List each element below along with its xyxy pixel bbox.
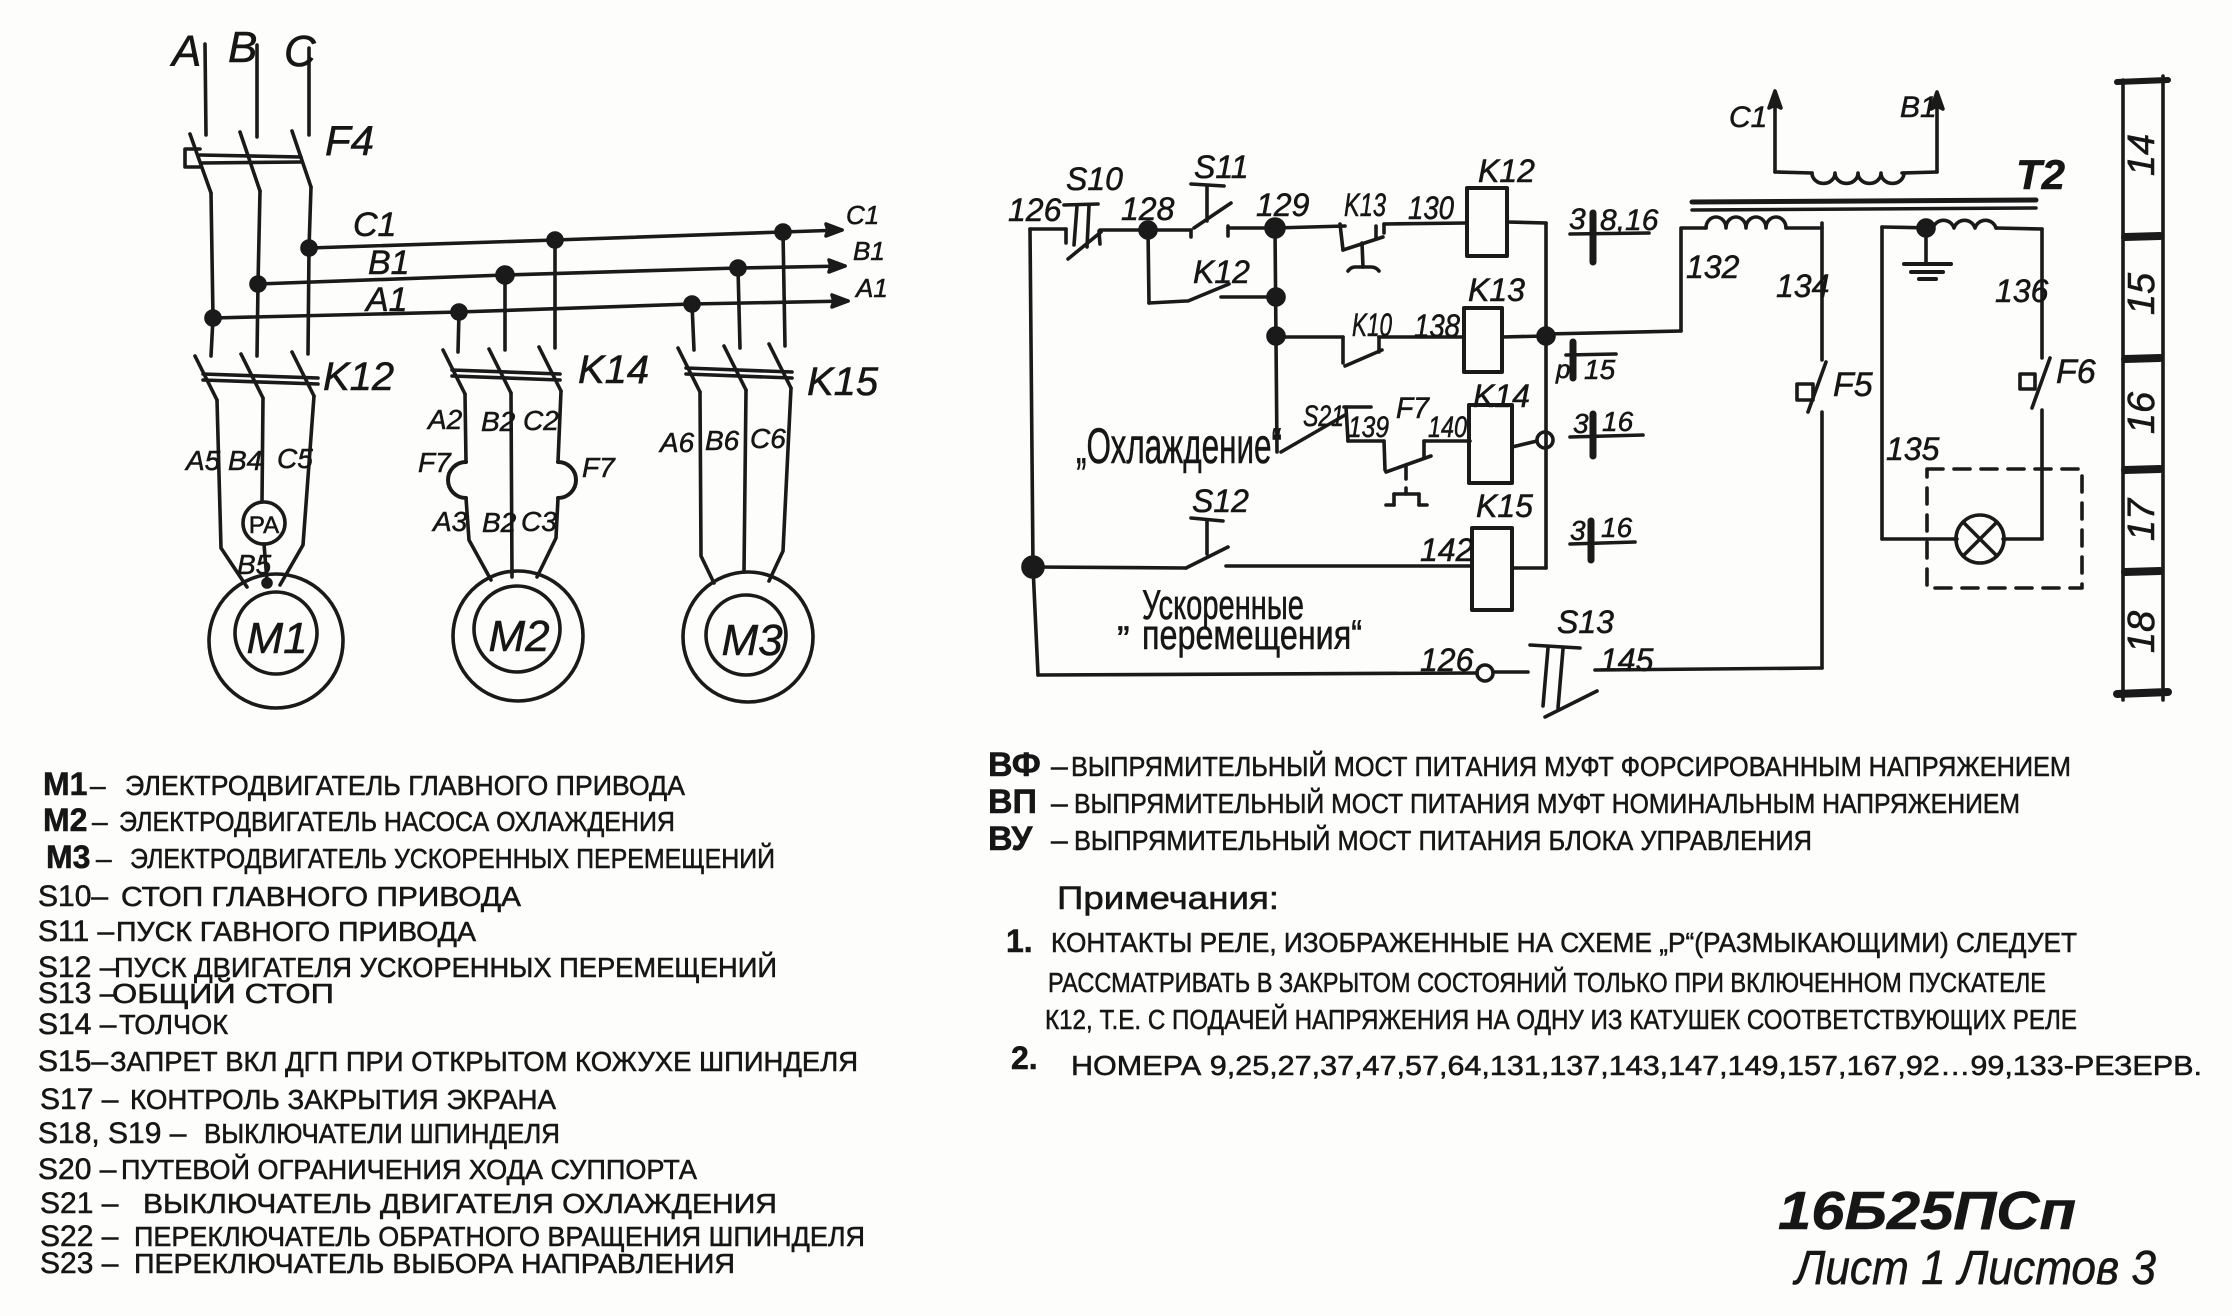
svg-text:128: 128 bbox=[1121, 191, 1175, 227]
svg-text:B: B bbox=[228, 23, 257, 72]
svg-text:ОБЩИЙ СТОП: ОБЩИЙ СТОП bbox=[112, 978, 334, 1009]
svg-text:S10: S10 bbox=[1066, 161, 1123, 197]
svg-text:КОНТРОЛЬ ЗАКРЫТИЯ ЭКРАНА: КОНТРОЛЬ ЗАКРЫТИЯ ЭКРАНА bbox=[130, 1084, 556, 1115]
svg-text:C1: C1 bbox=[353, 206, 396, 244]
svg-text:142: 142 bbox=[1420, 532, 1474, 568]
svg-text:ЭЛЕКТРОДВИГАТЕЛЬ ГЛАВНОГО ПР: ЭЛЕКТРОДВИГАТЕЛЬ ГЛАВНОГО ПРИВОДА bbox=[125, 770, 685, 801]
svg-text:–: – bbox=[1051, 787, 1068, 820]
svg-text:F7: F7 bbox=[582, 452, 616, 483]
svg-text:16Б25ПСп: 16Б25ПСп bbox=[1778, 1181, 2076, 1241]
svg-text:–: – bbox=[92, 806, 108, 837]
svg-text:K12: K12 bbox=[1193, 254, 1250, 290]
svg-text:C6: C6 bbox=[750, 423, 786, 454]
svg-text:ЭЛЕКТРОДВИГАТЕЛЬ УСКОРЕННЫХ: ЭЛЕКТРОДВИГАТЕЛЬ УСКОРЕННЫХ ПЕРЕМЕЩЕНИЙ bbox=[130, 843, 775, 874]
svg-text:B1: B1 bbox=[853, 236, 885, 266]
svg-text:ВЫКЛЮЧАТЕЛИ ШПИНДЕЛЯ: ВЫКЛЮЧАТЕЛИ ШПИНДЕЛЯ bbox=[204, 1118, 560, 1149]
svg-text:НОМЕРА 9,25,27,37,47,57,64,13: НОМЕРА 9,25,27,37,47,57,64,131,137,143,1… bbox=[1071, 1050, 2202, 1081]
svg-text:K14: K14 bbox=[1473, 378, 1530, 414]
svg-text:15: 15 bbox=[1584, 354, 1616, 385]
svg-text:126: 126 bbox=[1420, 642, 1474, 678]
svg-text:F5: F5 bbox=[1833, 366, 1873, 404]
svg-text:C1: C1 bbox=[1729, 101, 1767, 134]
svg-text:16: 16 bbox=[1601, 512, 1633, 543]
svg-text:S23 –: S23 – bbox=[40, 1247, 119, 1280]
svg-text:M3: M3 bbox=[46, 839, 90, 875]
svg-text:ВФ: ВФ bbox=[988, 746, 1041, 784]
svg-text:S11 –: S11 – bbox=[38, 915, 114, 948]
svg-text:C: C bbox=[284, 27, 317, 76]
svg-text:136: 136 bbox=[1995, 273, 2049, 309]
svg-text:PA: PA bbox=[249, 512, 279, 539]
svg-text:134: 134 bbox=[1776, 268, 1829, 304]
svg-text:S15–: S15– bbox=[38, 1045, 108, 1078]
svg-text:S10–: S10– bbox=[38, 880, 108, 913]
svg-text:S12: S12 bbox=[1192, 483, 1249, 519]
svg-text:K15: K15 bbox=[1476, 488, 1533, 524]
svg-text:K12: K12 bbox=[323, 355, 394, 399]
svg-text:C5: C5 bbox=[277, 443, 313, 474]
svg-text:B2: B2 bbox=[481, 406, 516, 437]
svg-text:A3: A3 bbox=[431, 506, 468, 537]
svg-text:ЭЛЕКТРОДВИГАТЕЛЬ НАСОСА ОХЛА: ЭЛЕКТРОДВИГАТЕЛЬ НАСОСА ОХЛАЖДЕНИЯ bbox=[119, 806, 675, 837]
svg-text:S13: S13 bbox=[1557, 604, 1614, 640]
svg-text:F7: F7 bbox=[1396, 392, 1430, 425]
svg-text:S13 –: S13 – bbox=[38, 977, 117, 1010]
svg-text:p: p bbox=[1555, 354, 1570, 384]
svg-text:–: – bbox=[90, 770, 106, 801]
svg-text:–: – bbox=[1051, 750, 1068, 783]
svg-text:3: 3 bbox=[1569, 203, 1586, 236]
svg-text:130: 130 bbox=[1408, 190, 1454, 226]
svg-text:C2: C2 bbox=[523, 405, 559, 436]
svg-text:14: 14 bbox=[2121, 134, 2163, 176]
svg-text:A1: A1 bbox=[364, 281, 408, 319]
svg-text:ПЕРЕКЛЮЧАТЕЛЬ ВЫБОРА НАПРАВЛЕН: ПЕРЕКЛЮЧАТЕЛЬ ВЫБОРА НАПРАВЛЕНИЯ bbox=[134, 1248, 735, 1279]
svg-text:ВЫПРЯМИТЕЛЬНЫЙ МОСТ ПИТАНИЯ: ВЫПРЯМИТЕЛЬНЫЙ МОСТ ПИТАНИЯ МУФТ НОМИНАЛ… bbox=[1074, 788, 2020, 819]
svg-text:перемещения“: перемещения“ bbox=[1142, 611, 1362, 658]
svg-text:S21: S21 bbox=[1303, 400, 1344, 433]
svg-text:F7: F7 bbox=[418, 447, 452, 478]
svg-text:135: 135 bbox=[1886, 431, 1940, 467]
svg-text:B1: B1 bbox=[368, 244, 410, 282]
svg-text:132: 132 bbox=[1686, 249, 1740, 285]
svg-text:ТОЛЧОК: ТОЛЧОК bbox=[119, 1009, 229, 1040]
svg-text:B5: B5 bbox=[237, 549, 272, 580]
svg-text:M1: M1 bbox=[43, 766, 87, 802]
svg-text:126: 126 bbox=[1008, 192, 1062, 228]
svg-text:F6: F6 bbox=[2056, 353, 2096, 391]
svg-text:F4: F4 bbox=[325, 117, 374, 164]
svg-text:3: 3 bbox=[1573, 408, 1589, 439]
svg-text:СТОП ГЛАВНОГО ПРИВОДА: СТОП ГЛАВНОГО ПРИВОДА bbox=[121, 881, 521, 912]
svg-text:M2: M2 bbox=[43, 802, 87, 838]
svg-text:К12, Т.Е. С ПОДАЧЕЙ НАПРЯЖЕНИ: К12, Т.Е. С ПОДАЧЕЙ НАПРЯЖЕНИЯ НА ОДНУ И… bbox=[1045, 1004, 2077, 1035]
svg-text:–: – bbox=[1051, 824, 1068, 857]
svg-text:„Охлаждение“: „Охлаждение“ bbox=[1076, 418, 1282, 474]
svg-text:A2: A2 bbox=[426, 404, 463, 435]
svg-text:K13: K13 bbox=[1468, 272, 1525, 308]
svg-text:16: 16 bbox=[2121, 391, 2163, 434]
svg-text:17: 17 bbox=[2121, 497, 2163, 541]
svg-text:РАССМАТРИВАТЬ В ЗАКРЫТОМ СОС: РАССМАТРИВАТЬ В ЗАКРЫТОМ СОСТОЯНИЙ ТОЛЬК… bbox=[1048, 967, 2046, 998]
svg-text:1.: 1. bbox=[1006, 923, 1033, 959]
svg-text:T2: T2 bbox=[2016, 151, 2065, 198]
svg-text:139: 139 bbox=[1348, 411, 1389, 444]
svg-text:ПУСК ГАВНОГО ПРИВОДА: ПУСК ГАВНОГО ПРИВОДА bbox=[116, 916, 476, 947]
svg-text:Лист 1 Листов 3: Лист 1 Листов 3 bbox=[1792, 1242, 2156, 1295]
svg-text:ЗАПРЕТ ВКЛ ДГП ПРИ ОТКРЫТОМ: ЗАПРЕТ ВКЛ ДГП ПРИ ОТКРЫТОМ КОЖУХЕ ШПИНД… bbox=[110, 1046, 858, 1077]
svg-text:ВП: ВП bbox=[988, 783, 1037, 821]
svg-text:140: 140 bbox=[1428, 411, 1467, 444]
svg-text:S14 –: S14 – bbox=[38, 1008, 117, 1041]
svg-text:–: – bbox=[96, 843, 112, 874]
svg-text:138: 138 bbox=[1414, 308, 1460, 344]
svg-text:S21 –: S21 – bbox=[40, 1187, 119, 1220]
svg-text:Примечания:: Примечания: bbox=[1057, 880, 1279, 916]
svg-text:M1: M1 bbox=[246, 614, 307, 663]
svg-text:K13: K13 bbox=[1344, 187, 1386, 223]
svg-text:3: 3 bbox=[1570, 515, 1586, 546]
svg-text:S11: S11 bbox=[1194, 149, 1249, 185]
svg-text:ПУТЕВОЙ ОГРАНИЧЕНИЯ ХОДА СУ: ПУТЕВОЙ ОГРАНИЧЕНИЯ ХОДА СУППОРТА bbox=[121, 1154, 697, 1185]
svg-text:КОНТАКТЫ РЕЛЕ, ИЗОБРАЖЕННЫЕ: КОНТАКТЫ РЕЛЕ, ИЗОБРАЖЕННЫЕ НА СХЕМЕ „Р“… bbox=[1051, 927, 2077, 958]
svg-text:A: A bbox=[169, 27, 201, 76]
svg-text:ВЫПРЯМИТЕЛЬНЫЙ МОСТ ПИТАНИЯ: ВЫПРЯМИТЕЛЬНЫЙ МОСТ ПИТАНИЯ МУФТ ФОРСИРО… bbox=[1071, 751, 2071, 782]
svg-text:S18, S19 –: S18, S19 – bbox=[38, 1117, 187, 1150]
svg-text:ВУ: ВУ bbox=[988, 820, 1033, 858]
svg-text:ВЫПРЯМИТЕЛЬНЫЙ МОСТ ПИТАНИЯ: ВЫПРЯМИТЕЛЬНЫЙ МОСТ ПИТАНИЯ БЛОКА УПРАВЛ… bbox=[1074, 825, 1812, 856]
svg-text:K15: K15 bbox=[807, 360, 879, 404]
svg-text:ВЫКЛЮЧАТЕЛЬ ДВИГАТЕЛЯ ОХЛАЖД: ВЫКЛЮЧАТЕЛЬ ДВИГАТЕЛЯ ОХЛАЖДЕНИЯ bbox=[143, 1188, 777, 1219]
svg-text:M3: M3 bbox=[721, 616, 783, 665]
svg-text:B1: B1 bbox=[1900, 91, 1937, 124]
svg-text:S17 –: S17 – bbox=[40, 1083, 119, 1116]
svg-text:„: „ bbox=[1117, 597, 1130, 639]
svg-text:A1: A1 bbox=[854, 273, 888, 303]
svg-text:K12: K12 bbox=[1478, 153, 1535, 189]
svg-text:C1: C1 bbox=[846, 200, 879, 230]
svg-text:B4: B4 bbox=[228, 445, 262, 476]
svg-text:S20 –: S20 – bbox=[38, 1153, 117, 1186]
svg-text:B2: B2 bbox=[482, 507, 517, 538]
svg-text:16: 16 bbox=[1602, 406, 1634, 437]
svg-text:129: 129 bbox=[1256, 187, 1310, 223]
svg-text:B6: B6 bbox=[705, 425, 740, 456]
svg-text:K10: K10 bbox=[1352, 307, 1392, 343]
svg-text:15: 15 bbox=[2121, 272, 2163, 315]
svg-text:A6: A6 bbox=[658, 427, 695, 458]
svg-text:C3: C3 bbox=[521, 506, 557, 537]
svg-text:18: 18 bbox=[2121, 611, 2163, 653]
svg-text:8,16: 8,16 bbox=[1600, 204, 1659, 237]
svg-text:A5: A5 bbox=[184, 445, 221, 476]
svg-text:145: 145 bbox=[1600, 642, 1654, 678]
svg-text:M2: M2 bbox=[488, 612, 549, 661]
svg-text:K14: K14 bbox=[578, 348, 649, 392]
svg-text:2.: 2. bbox=[1011, 1040, 1038, 1076]
